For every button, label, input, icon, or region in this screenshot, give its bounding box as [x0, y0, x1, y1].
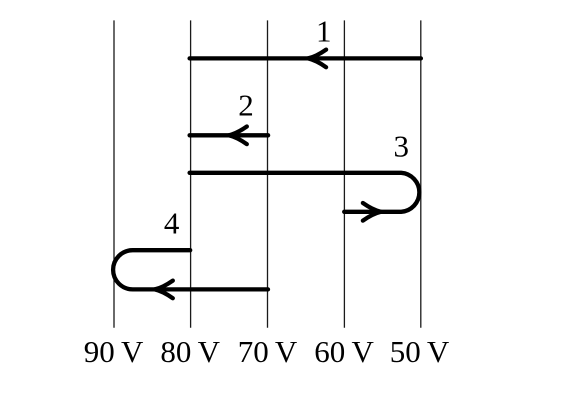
equipotential line 90 V [113, 20, 115, 327]
svg-text:2: 2 [238, 88, 254, 123]
path 4 arrowhead (leftward) [155, 281, 173, 299]
svg-text:80 V: 80 V [160, 334, 220, 369]
path 3 wire with U-turn [190, 173, 420, 212]
equipotential line 50 V [420, 20, 422, 327]
path 1 wire [190, 56, 421, 60]
equipotential line 80 V [190, 20, 192, 327]
path 1 arrowhead (leftward) [308, 50, 326, 68]
equipotential line 60 V [343, 20, 345, 327]
equipotential line 70 V [267, 20, 269, 327]
svg-text:4: 4 [164, 206, 180, 241]
path 4 wire with U-turn [113, 250, 268, 289]
path 2 wire [190, 133, 269, 137]
svg-text:70 V: 70 V [238, 334, 298, 369]
path 2 arrowhead (leftward) [229, 127, 247, 145]
path 3 arrowhead (rightward) [363, 203, 381, 221]
svg-text:60 V: 60 V [314, 334, 374, 369]
svg-text:3: 3 [393, 129, 409, 164]
svg-text:50 V: 50 V [390, 334, 450, 369]
svg-text:1: 1 [316, 14, 332, 49]
svg-text:90 V: 90 V [84, 334, 144, 369]
